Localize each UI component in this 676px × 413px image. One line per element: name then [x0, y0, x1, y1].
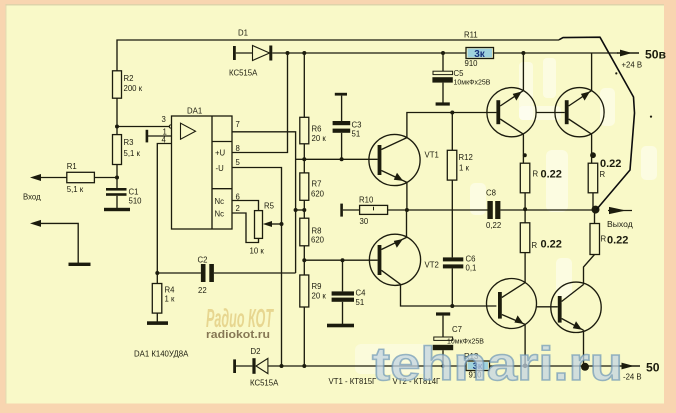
wire R1 to node — [94, 177, 117, 179]
wire VT6 emitter to bottom rail — [583, 330, 585, 367]
svg-text:R: R — [532, 241, 538, 250]
wire VT2 collector up — [406, 210, 408, 237]
svg-text:Nc: Nc — [215, 210, 225, 219]
node VT6 bottom (bold) — [581, 363, 589, 371]
svg-text:R: R — [601, 235, 607, 244]
node wiper on -U bus — [280, 222, 284, 226]
capacitor C4 — [342, 260, 344, 291]
svg-text:R8: R8 — [312, 227, 322, 236]
svg-text:VT1 - КТ815Г: VT1 - КТ815Г — [329, 377, 378, 386]
svg-text:DA1 К140УД8А: DA1 К140УД8А — [134, 350, 189, 359]
svg-text:10 к: 10 к — [250, 247, 265, 256]
node pair junction — [294, 208, 298, 212]
svg-text:10мкФх25В: 10мкФх25В — [454, 80, 491, 87]
resistor R emitter VT3 — [520, 163, 530, 193]
wire R to mid line — [524, 193, 526, 223]
svg-text:D1: D1 — [238, 29, 248, 38]
svg-text:3: 3 — [162, 115, 166, 124]
svg-text:C3: C3 — [352, 121, 362, 130]
svg-text:radiokot.ru: radiokot.ru — [206, 329, 270, 341]
transistor VT6 (bottom right output) — [551, 282, 601, 332]
svg-text:20 к: 20 к — [312, 292, 327, 301]
svg-text:Nc: Nc — [215, 197, 225, 206]
node left emitter chain x mid line — [523, 207, 527, 211]
svg-text:5,1 к: 5,1 к — [124, 149, 141, 158]
resistor R3 — [113, 135, 122, 165]
svg-text:200 к: 200 к — [124, 84, 143, 93]
node R6 riser — [302, 51, 306, 55]
resistor R9 — [300, 275, 309, 307]
decorative white patches — [519, 62, 533, 120]
svg-text:51: 51 — [356, 298, 365, 307]
svg-text:+24 В: +24 В — [622, 61, 643, 70]
C7 stub bar — [436, 312, 450, 315]
ground under C4 — [327, 324, 354, 328]
transistor VT4 (top right output) — [555, 88, 604, 137]
svg-text:620: 620 — [311, 236, 325, 245]
wire base segment VT3-VT4 — [536, 112, 565, 114]
wire VT2 emitter to bottom pair bases — [401, 284, 497, 306]
svg-text:1 к: 1 к — [165, 295, 176, 304]
output arrow — [608, 210, 632, 212]
resistor R7 — [300, 173, 309, 200]
wire VT1 base line — [304, 158, 377, 160]
wire C6 to emitter line — [451, 268, 453, 306]
svg-text:30: 30 — [360, 217, 369, 226]
wire VT1 collector to top pair bases — [407, 113, 497, 138]
svg-text:50: 50 — [646, 361, 660, 375]
svg-text:510: 510 — [129, 197, 143, 206]
wire R kink to VT6 — [584, 255, 595, 285]
node output (bold) — [592, 206, 600, 214]
input arrow 2 / ground stub — [41, 223, 78, 263]
node VT1/VT2/R10 — [405, 208, 409, 212]
resistor R12 — [451, 113, 453, 151]
resistor R1 — [67, 172, 95, 182]
resistor R6 — [300, 117, 309, 144]
resistor R emitter VT4 — [588, 163, 598, 193]
svg-text:C5: C5 — [454, 69, 465, 78]
node annotation dot VT4 emitter — [590, 152, 596, 158]
wire R2 to R3 — [116, 98, 118, 134]
transistor VT1 — [369, 134, 420, 185]
svg-text:50в: 50в — [645, 48, 667, 62]
capacitor C5 — [442, 53, 444, 71]
svg-text:0.22: 0.22 — [600, 158, 621, 170]
wire VT5 emitter to bottom rail — [524, 324, 526, 366]
svg-text:tehnari.ru: tehnari.ru — [372, 337, 623, 390]
svg-text:R4: R4 — [165, 286, 176, 295]
ground under input 2 — [69, 263, 91, 266]
potentiometer R5 — [255, 211, 263, 239]
node C3 tap — [340, 157, 344, 161]
resistor R8 — [300, 218, 309, 246]
node VT1 base / R6 — [302, 157, 306, 161]
node C5 — [441, 51, 445, 55]
svg-text:Выход: Выход — [607, 219, 633, 229]
wire R8 to VT2 base node — [303, 246, 305, 275]
R5 wiper arrow — [269, 223, 282, 225]
node VT5 bottom rail — [523, 364, 528, 369]
ground under C1 — [104, 208, 130, 211]
svg-text:Вход: Вход — [23, 193, 41, 202]
svg-text:C8: C8 — [486, 189, 496, 198]
wire R3 to R1 node — [116, 165, 118, 178]
capacitor C3 stub bar — [335, 93, 347, 96]
svg-text:5: 5 — [236, 158, 241, 167]
wire R to VT5 — [524, 253, 526, 283]
svg-text:R11: R11 — [464, 31, 478, 40]
wire R to output node — [592, 193, 594, 210]
node C4 tap — [341, 258, 345, 262]
capacitor C6 — [443, 257, 463, 261]
annotation polyline — [559, 37, 635, 209]
node C6 bottom — [450, 304, 454, 308]
resistor R2 — [113, 71, 122, 98]
wire bottom rail y366 — [268, 365, 618, 367]
wire to op-amp pin 3 — [117, 126, 170, 128]
svg-text:КС515А: КС515А — [229, 69, 258, 78]
svg-text:КС515А: КС515А — [250, 379, 279, 388]
transistor VT2 — [369, 234, 420, 285]
svg-text:620: 620 — [311, 190, 325, 199]
wire node to R7 — [303, 159, 305, 173]
svg-text:5,1 к: 5,1 к — [67, 185, 84, 194]
wire VT1 emitter down — [406, 182, 408, 210]
resistor R4 — [156, 273, 158, 284]
svg-text:DA1: DA1 — [187, 107, 202, 116]
svg-text:22: 22 — [198, 286, 207, 295]
wire mid line — [388, 209, 488, 211]
wire R9 to bottom rail — [303, 307, 305, 366]
C5 stub bar — [436, 102, 450, 105]
svg-text:2: 2 — [236, 204, 240, 213]
svg-text:8: 8 — [236, 144, 240, 153]
svg-text:R3: R3 — [124, 138, 134, 147]
svg-text:910: 910 — [465, 59, 479, 68]
node annotation dot VT3 emitter — [523, 153, 527, 157]
diode D1 stub terminal — [233, 46, 236, 60]
svg-text:VT1: VT1 — [425, 151, 439, 160]
power arrow +24V — [617, 52, 639, 54]
stray marks — [615, 72, 617, 74]
node R3/R1/C1 — [115, 176, 119, 180]
input arrow 1 — [33, 177, 67, 179]
svg-text:0,22: 0,22 — [486, 221, 501, 230]
wire R6 riser — [303, 53, 305, 117]
node VT2 base / R8-R9 — [302, 258, 306, 262]
svg-text:C4: C4 — [356, 289, 367, 298]
wire R12 to C6 — [451, 180, 453, 257]
svg-text:C1: C1 — [129, 188, 139, 197]
wire +24V rail y53 — [272, 52, 618, 54]
svg-text:-U: -U — [216, 164, 225, 173]
node pin8 riser — [286, 51, 290, 55]
svg-text:R12: R12 — [459, 153, 473, 162]
node R9 bottom — [302, 364, 306, 368]
svg-text:R2: R2 — [124, 74, 134, 83]
wire VT4 collector to rail — [591, 53, 593, 91]
wire VT3 collector to rail — [522, 53, 524, 91]
svg-text:51: 51 — [352, 130, 361, 139]
svg-text:C2: C2 — [198, 256, 208, 265]
node R2/R3/pin3 — [115, 125, 119, 129]
svg-text:R6: R6 — [312, 125, 322, 134]
node VT3 collector — [521, 51, 525, 55]
svg-text:R5: R5 — [264, 202, 275, 211]
svg-text:R1: R1 — [67, 162, 77, 171]
wire VT3 emitter down — [522, 134, 524, 163]
R10 stub terminal — [340, 204, 343, 217]
svg-text:R9: R9 — [312, 282, 322, 291]
capacitor C1 — [116, 178, 118, 189]
node R12 top — [450, 111, 454, 115]
wire output node to R — [594, 210, 596, 224]
wire C8 to output node — [500, 209, 596, 211]
diode D2 stub terminal — [233, 359, 236, 373]
wire VT2 base line — [304, 259, 377, 261]
node -U bus bottom — [280, 364, 284, 368]
wire base segment VT5-VT6 — [537, 306, 558, 308]
wire pin7 stub to node — [296, 158, 305, 160]
svg-text:C6: C6 — [466, 255, 476, 264]
svg-text:-24 В: -24 В — [623, 373, 642, 382]
resistor R emitter VT5 — [520, 223, 530, 253]
svg-text:0.22: 0.22 — [607, 235, 628, 247]
resistor R10 — [343, 209, 360, 211]
svg-text:1 к: 1 к — [459, 164, 470, 173]
pin 1 stub terminal — [146, 130, 149, 143]
svg-text:R10: R10 — [359, 196, 374, 205]
wire top feedback rail y40 — [117, 40, 559, 71]
svg-text:0.22: 0.22 — [541, 169, 562, 181]
wire VT4 emitter down — [591, 134, 593, 163]
capacitor C3 — [341, 96, 343, 121]
wire R7 to pair node — [303, 200, 305, 218]
svg-text:R: R — [533, 170, 539, 179]
svg-text:0.22: 0.22 — [541, 239, 562, 251]
wire R6 to VT1 base node — [303, 144, 305, 160]
transistor VT3 (top left output) — [487, 88, 536, 137]
svg-text:R7: R7 — [312, 180, 322, 189]
svg-text:0,1: 0,1 — [466, 264, 477, 273]
svg-text:20 к: 20 к — [312, 134, 327, 143]
svg-text:VT2: VT2 — [425, 261, 439, 270]
svg-text:C7: C7 — [452, 325, 462, 334]
svg-text:7: 7 — [236, 120, 240, 129]
power arrow -24V — [618, 365, 640, 367]
ground under R4 — [156, 313, 158, 321]
svg-text:D2: D2 — [251, 347, 261, 356]
svg-text:+U: +U — [215, 149, 226, 158]
svg-text:R: R — [600, 170, 606, 179]
transistor VT5 (bottom left output) — [487, 279, 537, 329]
node R4/C2/pin4 — [155, 271, 159, 275]
node C7 bottom rail — [441, 364, 445, 368]
